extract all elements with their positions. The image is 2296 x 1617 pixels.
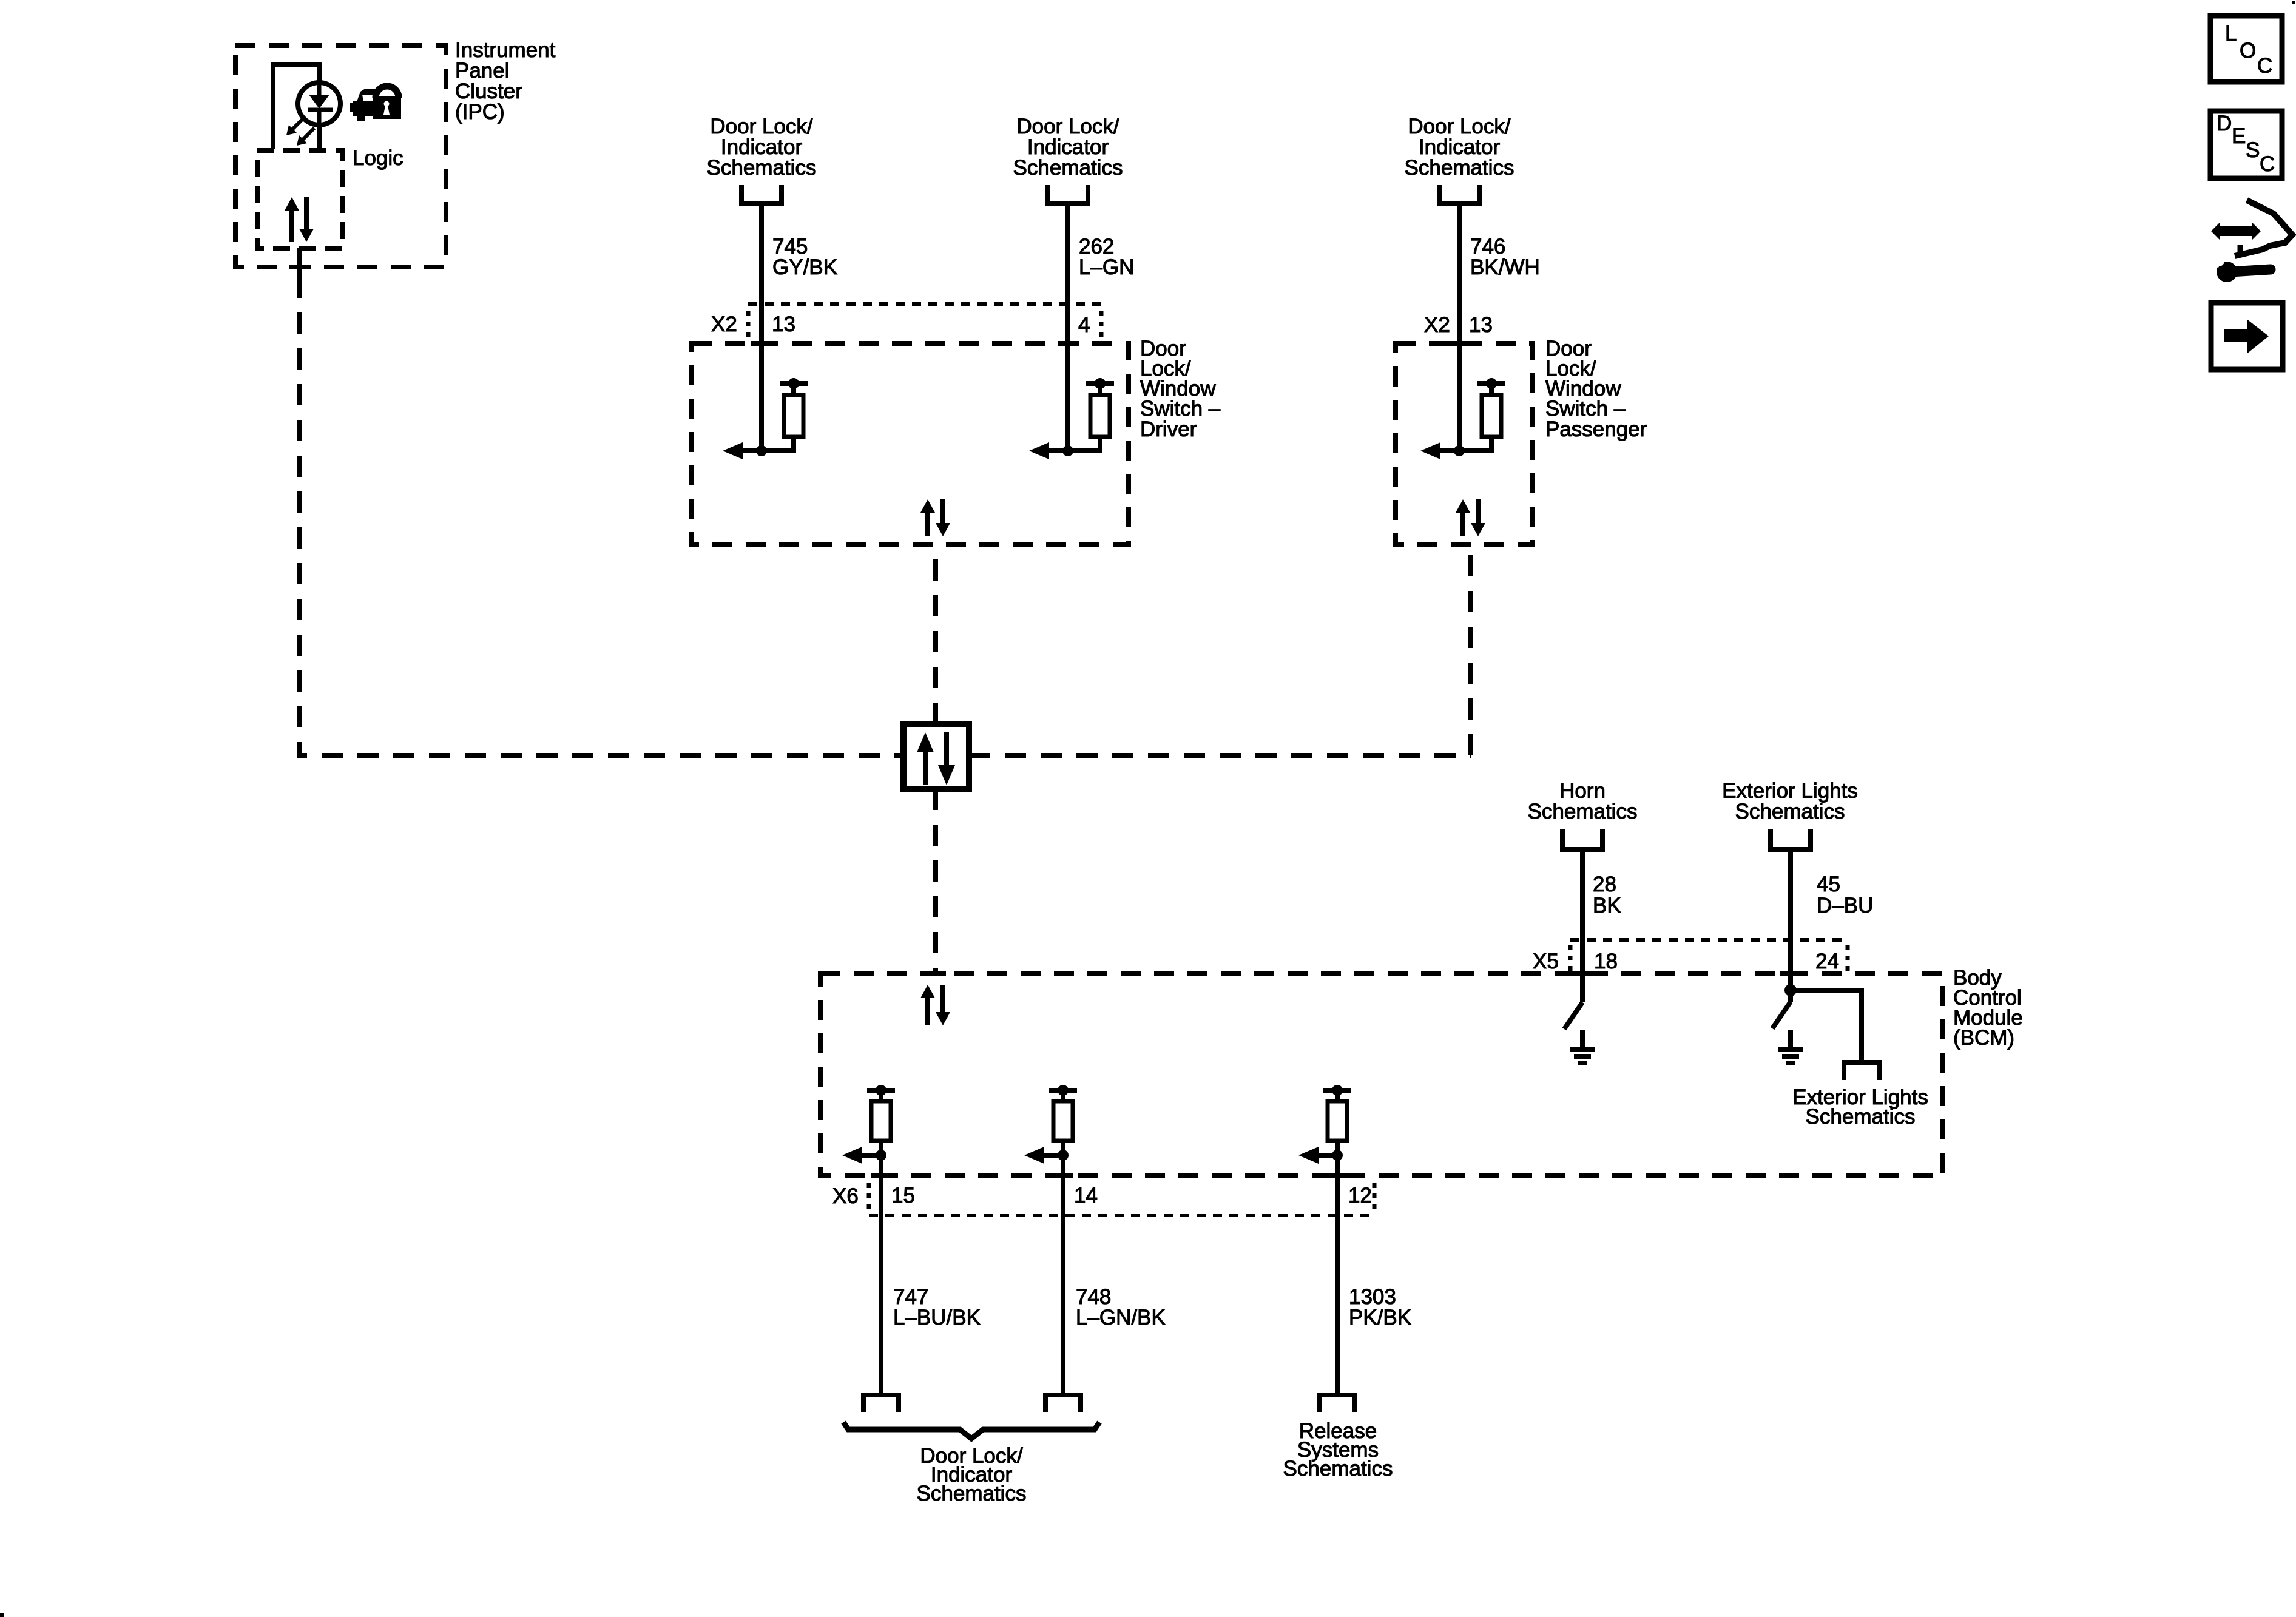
wire 748 label <box>1076 1285 1166 1329</box>
svg-text:C: C <box>2260 152 2275 176</box>
Door Lock/Indicator Schematics label (bottom) <box>917 1444 1027 1505</box>
wire 1303 <box>1335 1155 1340 1395</box>
Logic dashed box <box>257 150 342 248</box>
door adjust icon: door outline <box>2235 200 2292 256</box>
connector X2 stub right <box>1099 311 1104 337</box>
svg-text:Schematics: Schematics <box>917 1482 1027 1505</box>
LED wire to logic <box>317 125 322 152</box>
wire 747 label <box>893 1285 981 1329</box>
Release Systems Schematics label <box>1283 1419 1393 1480</box>
scan speck bottom left <box>0 1613 4 1617</box>
svg-text:X2: X2 <box>711 312 737 336</box>
wire 747 <box>879 1155 883 1395</box>
wire 748 <box>1061 1155 1065 1395</box>
BCM label <box>1953 966 2023 1050</box>
Door Lock/Window Switch - Passenger dashed box <box>1396 343 1533 545</box>
wire 28 <box>1580 849 1585 1002</box>
svg-text:X5: X5 <box>1533 950 1559 973</box>
svg-text:Driver: Driver <box>1140 417 1197 441</box>
exterior lights junction <box>1784 984 1797 996</box>
svg-text:X6: X6 <box>832 1184 859 1208</box>
hub serial data arrows <box>917 732 955 785</box>
Door Lock/Indicator Schematics label c <box>1405 115 1514 180</box>
wire 28 label <box>1593 873 1621 917</box>
svg-text:15: 15 <box>891 1184 915 1207</box>
wire 45 label <box>1817 873 1873 917</box>
serial data wire from IPC <box>299 277 903 755</box>
LED diode <box>308 83 333 125</box>
driver box serial data arrows <box>920 499 950 536</box>
svg-text:Schematics: Schematics <box>707 156 817 180</box>
wire logic box to IPC border <box>297 248 302 277</box>
LED circle <box>298 83 340 125</box>
svg-text:E: E <box>2232 124 2246 148</box>
svg-text:L–GN: L–GN <box>1079 255 1134 279</box>
BCM resistor (1303) with arrow <box>1298 1085 1351 1164</box>
svg-text:12: 12 <box>1348 1184 1372 1207</box>
door adjust icon: double arrow <box>2211 222 2261 240</box>
off-page connector horn <box>1562 829 1602 849</box>
wire 1303 label <box>1349 1285 1411 1329</box>
svg-text:28: 28 <box>1593 873 1616 896</box>
svg-text:D–BU: D–BU <box>1817 894 1873 917</box>
tick crossing IPC border <box>289 265 309 269</box>
IPC label <box>455 38 556 124</box>
wire 746 <box>1457 203 1462 451</box>
svg-text:Schematics: Schematics <box>1283 1457 1393 1480</box>
svg-text:(IPC): (IPC) <box>455 100 505 124</box>
switch resistor (746) with arrow <box>1420 378 1505 459</box>
LOC icon box <box>2210 16 2282 82</box>
serial data wire hub to BCM <box>933 789 938 974</box>
svg-text:C: C <box>2257 54 2272 78</box>
svg-text:13: 13 <box>772 312 795 336</box>
ticks where wires cross BCM bottom <box>871 1173 891 1178</box>
Door Lock/Indicator Schematics label a <box>707 115 817 180</box>
X6 stub left <box>867 1183 871 1210</box>
svg-text:PK/BK: PK/BK <box>1349 1306 1411 1329</box>
Horn Schematics label <box>1528 779 1638 823</box>
off-page connector a <box>741 185 782 203</box>
connector X6 dotted line <box>869 1214 1374 1217</box>
svg-text:Schematics: Schematics <box>1405 156 1514 180</box>
Instrument Panel Cluster (IPC) dashed box <box>235 46 446 267</box>
scan speck top right <box>2292 1 2295 4</box>
wire 746 label <box>1470 235 1540 279</box>
svg-text:13: 13 <box>1469 313 1493 337</box>
off-page connector c <box>1439 185 1479 203</box>
serial data hub box <box>903 724 969 789</box>
svg-text:S: S <box>2246 138 2260 162</box>
svg-text:18: 18 <box>1594 950 1618 973</box>
driver box label <box>1140 337 1221 441</box>
svg-text:L: L <box>2225 22 2237 46</box>
svg-text:L–BU/BK: L–BU/BK <box>893 1306 981 1329</box>
BCM resistor (748) with arrow <box>1024 1085 1077 1164</box>
serial data wire hub to passenger box <box>969 545 1471 755</box>
branch wire to exterior lights connector <box>1791 990 1862 1060</box>
brace <box>843 1422 1099 1439</box>
X6 stub right <box>1373 1183 1377 1210</box>
off-page connector exterior lights <box>1771 829 1811 849</box>
svg-text:(BCM): (BCM) <box>1953 1026 2014 1050</box>
Body Control Module (BCM) dashed box <box>820 974 1943 1176</box>
DESC icon box <box>2210 111 2282 178</box>
ground (horn driver) <box>1570 1030 1595 1063</box>
off-page connector 747 <box>863 1395 899 1412</box>
X5 stub left <box>1568 945 1573 971</box>
switch resistor (745) with arrow <box>723 378 808 459</box>
next-page arrow icon box <box>2211 303 2283 370</box>
logic serial data arrows <box>285 197 314 242</box>
Door Lock/Indicator Schematics label b <box>1013 115 1123 180</box>
switch resistor (262) with arrow <box>1029 378 1114 459</box>
off-page connector 1303 <box>1320 1395 1355 1412</box>
svg-text:4: 4 <box>1078 313 1090 337</box>
passenger box serial data arrows <box>1456 499 1485 536</box>
connector X2 dotted line (driver) <box>748 302 1101 306</box>
svg-text:Schematics: Schematics <box>1735 800 1845 823</box>
X5 stub right <box>1846 945 1850 971</box>
svg-text:D: D <box>2217 112 2232 135</box>
svg-text:45: 45 <box>1817 873 1840 896</box>
off-page connector exterior lights (internal) <box>1844 1062 1879 1080</box>
svg-text:X2: X2 <box>1424 313 1450 337</box>
car with padlock icon <box>350 86 401 121</box>
wire 45 <box>1788 849 1793 1002</box>
svg-text:L–GN/BK: L–GN/BK <box>1076 1306 1166 1329</box>
off-page connector b <box>1048 185 1088 203</box>
wire 745 <box>759 203 764 451</box>
svg-text:BK/WH: BK/WH <box>1470 255 1540 279</box>
wrench <box>2209 254 2271 282</box>
svg-text:O: O <box>2240 39 2256 62</box>
wire 262 label <box>1079 235 1134 279</box>
Exterior Lights Schematics label (internal) <box>1792 1085 1928 1129</box>
horn switch blade <box>1564 1002 1582 1029</box>
svg-text:Schematics: Schematics <box>1806 1105 1916 1129</box>
wire 745 label <box>772 235 837 279</box>
svg-text:GY/BK: GY/BK <box>772 255 837 279</box>
svg-text:Passenger: Passenger <box>1545 417 1647 441</box>
ground (exterior lights driver) <box>1778 1030 1803 1063</box>
connector X5 dotted line <box>1570 938 1848 942</box>
BCM serial data arrows <box>920 985 950 1025</box>
svg-text:24: 24 <box>1815 950 1839 973</box>
Door Lock/Window Switch - Driver dashed box <box>692 343 1129 545</box>
svg-text:Schematics: Schematics <box>1013 156 1123 180</box>
off-page connector 748 <box>1045 1395 1081 1412</box>
svg-text:14: 14 <box>1074 1184 1098 1207</box>
svg-text:BK: BK <box>1593 894 1621 917</box>
ticks where wires cross driver box top <box>751 341 772 346</box>
connector X2 stub left <box>746 311 751 337</box>
serial data wire driver box to hub <box>933 545 938 724</box>
LED light arrows <box>286 118 314 146</box>
passenger box label <box>1545 337 1647 441</box>
svg-text:Logic: Logic <box>353 146 403 170</box>
Exterior Lights Schematics label (top) <box>1722 779 1858 823</box>
svg-text:Schematics: Schematics <box>1528 800 1638 823</box>
BCM resistor (747) with arrow <box>842 1085 895 1164</box>
wire 262 <box>1065 203 1070 451</box>
LED indicator circuit loop <box>273 65 319 149</box>
exterior lights switch blade <box>1772 1002 1791 1028</box>
